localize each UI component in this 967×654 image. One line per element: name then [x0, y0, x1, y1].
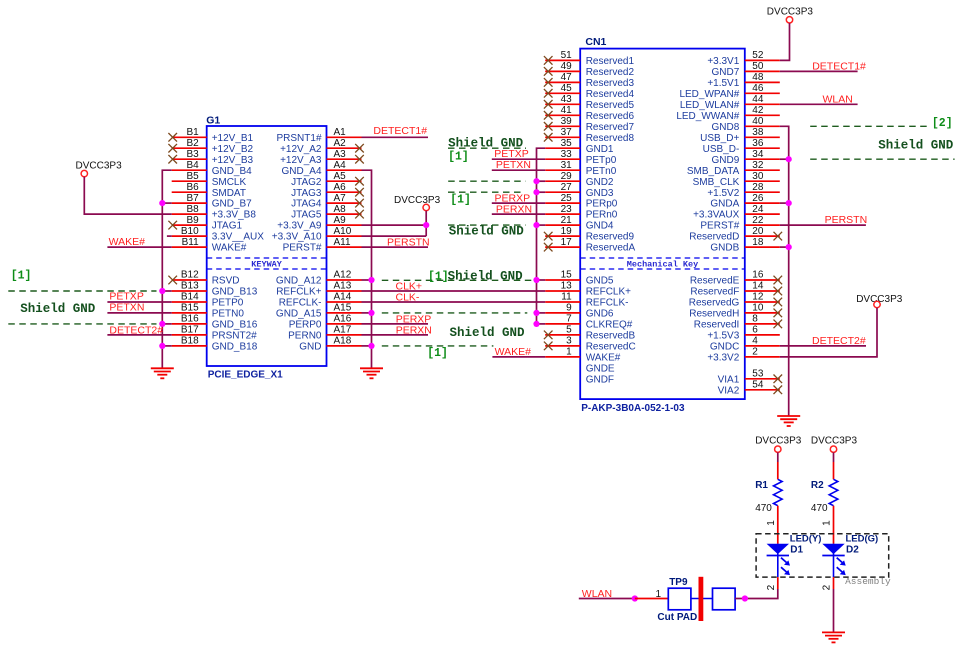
svg-text:LED(Y): LED(Y)	[790, 534, 822, 545]
svg-text:Shield GND: Shield GND	[449, 224, 525, 238]
svg-text:SMDAT: SMDAT	[212, 188, 246, 199]
CN1 pin 29 (GND2)	[545, 171, 614, 188]
svg-text:GND5: GND5	[586, 276, 614, 287]
svg-text:GND8: GND8	[712, 122, 740, 133]
junction CN1 pin 15	[533, 277, 539, 283]
G1 pin B14 (PETP0)	[172, 292, 244, 309]
svg-text:42: 42	[752, 105, 764, 116]
G1 pin A6 (JTAG3)	[291, 182, 364, 199]
net label CLK- and wire G1 A14 to CN1 pin 11	[362, 292, 546, 304]
svg-text:A18: A18	[334, 336, 352, 347]
wire DVCC3P3 to R1	[777, 452, 779, 479]
svg-text:[2]: [2]	[932, 117, 953, 130]
net label WLAN and wire to TP9	[579, 588, 635, 600]
CN1 pin 8 (ReservedI)	[694, 314, 782, 331]
G1 pin B11 (WAKE#)	[172, 237, 247, 254]
svg-text:DVCC3P3: DVCC3P3	[394, 195, 441, 206]
svg-text:A3: A3	[334, 149, 347, 160]
G1 pin B16 (GND_B16)	[172, 314, 258, 331]
CN1 pin 48 (+1.5V1)	[707, 72, 779, 89]
svg-text:CLKREQ#: CLKREQ#	[586, 320, 633, 331]
svg-text:+3.3V2: +3.3V2	[707, 353, 739, 364]
svg-text:Shield GND: Shield GND	[20, 302, 96, 316]
svg-text:+12V_A2: +12V_A2	[280, 144, 322, 155]
svg-text:Shield GND: Shield GND	[448, 269, 524, 283]
svg-text:49: 49	[561, 61, 573, 72]
svg-text:8: 8	[752, 314, 758, 325]
svg-text:GND_B16: GND_B16	[212, 320, 258, 331]
wire GND bus right of G1 (A4-A12-A15-A18)	[362, 170, 372, 368]
svg-text:PERSTN: PERSTN	[825, 214, 868, 226]
svg-text:PERp0: PERp0	[586, 199, 618, 210]
svg-text:B15: B15	[181, 303, 199, 314]
svg-text:+3.3VAUX: +3.3VAUX	[693, 210, 740, 221]
CN1 pin 33 (PETp0)	[545, 149, 617, 166]
svg-text:1: 1	[566, 347, 572, 358]
svg-text:B16: B16	[181, 314, 199, 325]
CN1 pin 13 (REFCLK+)	[545, 281, 631, 298]
svg-text:+3.3V_B8: +3.3V_B8	[212, 210, 257, 221]
svg-text:ReservedH: ReservedH	[689, 309, 739, 320]
svg-text:9: 9	[566, 303, 572, 314]
junction CN1 pin 9	[533, 310, 539, 316]
svg-text:B2: B2	[186, 138, 199, 149]
G1 pin B18 (GND_B18)	[172, 336, 258, 353]
svg-text:SMB_DATA: SMB_DATA	[687, 166, 740, 177]
text Assembly	[845, 576, 891, 587]
svg-text:REFCLK+: REFCLK+	[586, 287, 631, 298]
svg-text:B12: B12	[181, 270, 199, 281]
svg-text:D1: D1	[790, 545, 803, 556]
svg-text:[1]: [1]	[450, 193, 471, 206]
svg-text:A11: A11	[334, 237, 351, 248]
svg-text:+1.5V2: +1.5V2	[707, 188, 739, 199]
shield dashed line at CN1 pin 29 row	[448, 180, 525, 182]
svg-text:Reserved2: Reserved2	[586, 67, 635, 78]
CN1 pin 45 (Reserved4)	[544, 83, 635, 100]
shield dashed line at B16 row	[8, 323, 156, 325]
svg-text:GND2: GND2	[586, 177, 614, 188]
svg-text:REFCLK-: REFCLK-	[279, 298, 322, 309]
testpoint TP9 (Cut PAD)	[657, 577, 735, 623]
net label PERSTN and wire from CN1 pin 22	[780, 214, 867, 226]
svg-text:D2: D2	[846, 545, 859, 556]
svg-text:40: 40	[752, 116, 764, 127]
text Shield GND (middle)	[449, 224, 525, 238]
svg-text:JTAG1: JTAG1	[212, 221, 243, 232]
svg-text:A2: A2	[334, 138, 347, 149]
CN1 pin 20 (ReservedD)	[689, 226, 782, 243]
wire GND bus left of CN1 (pins 35-29-27-21-15-9-7)	[537, 148, 546, 324]
svg-text:GND3: GND3	[586, 188, 614, 199]
CN1 pin 24 (+3.3VAUX)	[693, 204, 780, 221]
svg-text:DVCC3P3: DVCC3P3	[76, 161, 123, 172]
net label DETECT2# and wire from CN1 pin 4	[780, 335, 866, 347]
svg-text:Reserved7: Reserved7	[586, 122, 635, 133]
pin 1 label of TP9	[656, 589, 662, 600]
svg-text:44: 44	[752, 94, 764, 105]
CN1 pin 22 (PERST#)	[700, 215, 779, 232]
svg-text:GNDC: GNDC	[710, 342, 739, 353]
svg-text:29: 29	[561, 171, 573, 182]
G1 pin B15 (PETN0)	[172, 303, 245, 320]
svg-text:16: 16	[752, 270, 764, 281]
G1 pin A5 (JTAG2)	[291, 171, 364, 188]
resistor R2 470	[811, 479, 838, 514]
CN1 pin 25 (PERp0)	[545, 193, 618, 210]
CN1 pin 11 (REFCLK-)	[545, 292, 628, 309]
svg-text:R1: R1	[755, 480, 768, 491]
CN1 pin 5 (ReservedB)	[544, 325, 636, 342]
CN1 pin 28 (+1.5V2)	[707, 182, 779, 199]
svg-text:Reserved5: Reserved5	[586, 100, 635, 111]
svg-text:21: 21	[561, 215, 573, 226]
net label PERXN and wire from G1 A17	[362, 324, 432, 336]
svg-text:Mechanical Key: Mechanical Key	[627, 259, 698, 269]
svg-text:39: 39	[561, 116, 573, 127]
svg-text:19: 19	[561, 226, 573, 237]
svg-text:PETXN: PETXN	[496, 159, 531, 171]
svg-text:+1.5V3: +1.5V3	[707, 331, 739, 342]
shield dashed line at CN1 pin 27 row	[448, 191, 524, 193]
svg-text:46: 46	[752, 83, 764, 94]
CN1 pin 35 (GND1)	[545, 138, 614, 155]
wire DVCC3P3 to R2	[833, 452, 835, 479]
svg-text:ReservedF: ReservedF	[690, 287, 739, 298]
svg-text:7: 7	[566, 314, 572, 325]
G1 pin A10 (+3.3V_A10)	[272, 226, 362, 243]
junction A15	[368, 310, 374, 316]
svg-text:A5: A5	[334, 171, 347, 182]
CN1 pin 26 (GNDA)	[710, 193, 779, 210]
svg-text:G1: G1	[206, 115, 220, 127]
svg-text:ReservedA: ReservedA	[586, 243, 636, 254]
power symbol DVCC3P3 (right, to CN1 pin 2)	[856, 294, 903, 308]
junction A18	[368, 343, 374, 349]
svg-text:[1]: [1]	[11, 270, 32, 283]
svg-text:B4: B4	[186, 160, 199, 171]
svg-text:PERn0: PERn0	[586, 210, 618, 221]
note [2] (right)	[932, 117, 953, 130]
CN1 pin 53 (VIA1)	[718, 369, 782, 386]
ground (CN1 right GND bus)	[777, 416, 800, 426]
CN1 pin 38 (USB_D+)	[700, 127, 780, 144]
G1 pin A18 (GND)	[299, 336, 361, 353]
svg-text:36: 36	[752, 138, 764, 149]
junction A9/DVCC3P3	[423, 222, 429, 228]
junction CN1 pin 29	[533, 178, 539, 184]
CN1 pin 23 (PERn0)	[545, 204, 618, 221]
svg-text:34: 34	[752, 149, 764, 160]
svg-text:Reserved6: Reserved6	[586, 111, 635, 122]
net label PETXP and wire to CN1 pin 33	[492, 148, 545, 160]
G1 pin A4 (GND_A4)	[281, 160, 361, 177]
svg-text:LED_WLAN#: LED_WLAN#	[680, 100, 740, 111]
CN1 pin 30 (SMB_CLK)	[693, 171, 780, 188]
svg-text:33: 33	[561, 149, 573, 160]
G1 pin B13 (GND_B13)	[172, 281, 258, 298]
note [1] (above PETXP)	[448, 150, 469, 163]
net label PETXN and wire to CN1 pin 31	[492, 159, 545, 171]
svg-text:GND_A4: GND_A4	[281, 166, 321, 177]
note [1] (below A18 row)	[427, 347, 448, 360]
CN1 pin 40 (GND8)	[712, 116, 780, 133]
resistor R1 470	[755, 479, 782, 514]
svg-text:B3: B3	[186, 149, 199, 160]
CN1 pin 27 (GND3)	[545, 182, 614, 199]
svg-text:PETN0: PETN0	[212, 309, 245, 320]
svg-text:LED_WPAN#: LED_WPAN#	[679, 89, 739, 100]
svg-text:+12V_B3: +12V_B3	[212, 155, 254, 166]
G1 pin A1 (PRSNT1#)	[276, 127, 361, 144]
LED D1 emission arrows	[781, 558, 790, 575]
CN1 pin 9 (GND6)	[545, 303, 614, 320]
assembly dashed box	[756, 534, 889, 577]
svg-text:+1.5V1: +1.5V1	[707, 78, 739, 89]
LED D2 LED(G)	[822, 534, 878, 556]
svg-text:PERP0: PERP0	[289, 320, 322, 331]
svg-text:GND4: GND4	[586, 221, 614, 232]
note [1]Shield_GND (A12 row)	[428, 269, 523, 283]
svg-text:35: 35	[561, 138, 573, 149]
svg-text:ReservedC: ReservedC	[586, 342, 636, 353]
svg-text:[1]: [1]	[428, 270, 449, 283]
svg-text:B14: B14	[181, 292, 199, 303]
svg-text:JTAG4: JTAG4	[291, 199, 322, 210]
svg-text:24: 24	[752, 204, 764, 215]
svg-text:B6: B6	[186, 182, 199, 193]
svg-text:+3.3V_A9: +3.3V_A9	[277, 221, 322, 232]
svg-text:28: 28	[752, 182, 764, 193]
CN1 pin 1 (WAKE#)	[545, 347, 621, 364]
svg-text:DETECT1#: DETECT1#	[373, 125, 427, 137]
svg-text:Cut PAD: Cut PAD	[657, 612, 697, 623]
svg-text:[1]: [1]	[448, 150, 469, 163]
shield dashed line at CN1 pin 40 row	[810, 125, 930, 127]
CN1 pin 19 (Reserved9)	[544, 226, 635, 243]
CN1 pin 43 (Reserved5)	[544, 94, 635, 111]
G1 pin A3 (+12V_A3)	[280, 149, 364, 166]
wire below LED D2	[833, 556, 835, 633]
svg-text:JTAG3: JTAG3	[291, 188, 322, 199]
svg-text:4: 4	[752, 336, 758, 347]
junction CN1 pin 7	[533, 321, 539, 327]
svg-text:PRSNT2#: PRSNT2#	[212, 331, 257, 342]
net label WAKE# and wire to G1 B11	[107, 236, 171, 248]
svg-text:Reserved9: Reserved9	[586, 232, 635, 243]
svg-text:GND7: GND7	[712, 67, 740, 78]
svg-text:54: 54	[752, 380, 764, 391]
svg-text:48: 48	[752, 72, 764, 83]
svg-text:1: 1	[656, 589, 662, 600]
text Shield GND (right)	[878, 138, 954, 152]
svg-text:25: 25	[561, 193, 573, 204]
wire CN1 pin 2 to DVCC3P3	[780, 308, 877, 357]
svg-text:KEYWAY: KEYWAY	[251, 259, 283, 269]
pin 1 label of D1	[766, 520, 777, 526]
note [1] (above PERXP)	[450, 193, 471, 206]
junction CN1 pin 34	[786, 156, 792, 162]
svg-text:ReservedD: ReservedD	[689, 232, 739, 243]
svg-text:WAKE#: WAKE#	[212, 243, 247, 254]
svg-text:470: 470	[755, 503, 772, 514]
svg-text:Reserved8: Reserved8	[586, 133, 635, 144]
svg-text:6: 6	[752, 325, 758, 336]
svg-text:41: 41	[561, 105, 573, 116]
power symbol DVCC3P3 (top, to CN1 pin 52)	[767, 7, 814, 23]
svg-text:A8: A8	[334, 204, 347, 215]
svg-text:1: 1	[822, 520, 833, 526]
svg-text:GNDA: GNDA	[710, 199, 739, 210]
G1 pin A8 (JTAG5)	[291, 204, 364, 221]
svg-text:A6: A6	[334, 182, 347, 193]
svg-text:RSVD: RSVD	[212, 276, 240, 287]
svg-text:PETn0: PETn0	[586, 166, 617, 177]
svg-text:B13: B13	[181, 281, 199, 292]
junction TP9/D1	[742, 595, 748, 601]
svg-text:2: 2	[822, 584, 833, 590]
net label WAKE# and wire to CN1 pin 1	[492, 346, 545, 358]
svg-text:2: 2	[766, 584, 777, 590]
svg-text:27: 27	[561, 182, 573, 193]
G1 pin A9 (+3.3V_A9)	[277, 215, 361, 232]
svg-text:5: 5	[566, 325, 572, 336]
svg-text:GNDB: GNDB	[710, 243, 739, 254]
wire DVCC3P3 to G1 pin B8	[84, 177, 171, 214]
junction CN1 pin 26	[786, 200, 792, 206]
G1 pin A16 (PERP0)	[289, 314, 362, 331]
junction B18	[159, 343, 165, 349]
svg-text:A13: A13	[334, 281, 352, 292]
svg-text:A16: A16	[334, 314, 352, 325]
svg-text:REFCLK+: REFCLK+	[276, 287, 321, 298]
G1 pin B6 (SMDAT)	[172, 182, 246, 199]
CN1 pin 15 (GND5)	[545, 270, 614, 287]
CN1 pin - (GNDF)	[586, 374, 614, 385]
CN1 pin 54 (VIA2)	[718, 380, 782, 397]
svg-text:Reserved4: Reserved4	[586, 89, 635, 100]
G1 pin B9 (JTAG1)	[168, 215, 242, 232]
G1 pin A13 (REFCLK+)	[276, 281, 361, 298]
G1 pin B17 (PRSNT2#)	[172, 325, 257, 342]
svg-text:A12: A12	[334, 270, 352, 281]
svg-text:GND_B18: GND_B18	[212, 342, 258, 353]
svg-text:WAKE#: WAKE#	[586, 353, 621, 364]
svg-text:30: 30	[752, 171, 764, 182]
power symbol DVCC3P3 (above R2)	[811, 435, 858, 452]
svg-text:B1: B1	[186, 127, 199, 138]
junction CN1 pin 18	[786, 244, 792, 250]
G1 pin A15 (GND_A15)	[276, 303, 362, 320]
net label DETECT1# and wire from CN1 pin 50	[780, 61, 866, 73]
CN1 pin 31 (PETn0)	[545, 160, 617, 177]
svg-text:PETXN: PETXN	[109, 301, 144, 313]
svg-text:GND: GND	[299, 342, 321, 353]
connector G1 body (PCIE_EDGE_X1)	[206, 115, 326, 381]
shield dashed line at CN1 pin 34 row	[810, 158, 954, 160]
ground (G1 B-side GND bus)	[151, 368, 174, 378]
svg-text:52: 52	[752, 50, 764, 61]
G1 pin A7 (JTAG4)	[291, 193, 364, 210]
svg-text:ReservedE: ReservedE	[690, 276, 740, 287]
svg-text:DVCC3P3: DVCC3P3	[755, 435, 802, 446]
junction CN1 pin 27	[533, 189, 539, 195]
CN1 pin 46 (LED_WPAN#)	[679, 83, 779, 100]
svg-text:A14: A14	[334, 292, 352, 303]
wire below LED D1	[745, 556, 778, 599]
svg-text:+12V_B2: +12V_B2	[212, 144, 254, 155]
CN1 pin 39 (Reserved7)	[544, 116, 635, 133]
svg-text:17: 17	[561, 237, 573, 248]
svg-text:SMB_CLK: SMB_CLK	[693, 177, 740, 188]
net label PERXP and wire to CN1 pin 25	[492, 193, 545, 205]
svg-text:A4: A4	[334, 160, 347, 171]
LED D1 LED(Y)	[767, 534, 822, 556]
G1 pin B12 (RSVD)	[168, 270, 239, 287]
svg-text:PERST#: PERST#	[700, 221, 739, 232]
svg-text:31: 31	[561, 160, 573, 171]
svg-text:USB_D-: USB_D-	[703, 144, 740, 155]
svg-text:ReservedI: ReservedI	[694, 320, 740, 331]
svg-text:12: 12	[752, 292, 764, 303]
text Shield GND (above PETXP row)	[448, 136, 524, 150]
svg-text:PERN0: PERN0	[288, 331, 322, 342]
net label PERSTN and wire from G1 A11	[362, 236, 430, 248]
svg-text:B10: B10	[181, 226, 199, 237]
svg-text:PERST#: PERST#	[283, 243, 322, 254]
CN1 pin 10 (ReservedH)	[689, 303, 782, 320]
net label CLK+ and wire G1 A13 to CN1 pin 13	[362, 281, 546, 293]
CN1 pin 36 (USB_D-)	[703, 138, 780, 155]
CN1 pin 44 (LED_WLAN#)	[680, 94, 780, 111]
svg-text:Assembly: Assembly	[845, 576, 891, 587]
G1 pin B1 (+12V_B1)	[168, 127, 253, 144]
svg-text:A10: A10	[334, 226, 352, 237]
svg-text:Reserved1: Reserved1	[586, 56, 635, 67]
svg-text:B5: B5	[186, 171, 199, 182]
G1 pin B3 (+12V_B3)	[168, 149, 253, 166]
svg-text:+3.3V1: +3.3V1	[707, 56, 739, 67]
svg-text:1: 1	[766, 520, 777, 526]
CN1 pin 32 (SMB_DATA)	[687, 160, 780, 177]
text Shield GND (lower middle)	[450, 326, 526, 340]
svg-text:A9: A9	[334, 215, 347, 226]
pin 1 label of D2	[822, 520, 833, 526]
junction B16	[159, 321, 165, 327]
G1 pin A17 (PERN0)	[288, 325, 361, 342]
svg-text:B9: B9	[186, 215, 199, 226]
svg-text:GND_A12: GND_A12	[276, 276, 322, 287]
svg-text:GND_A15: GND_A15	[276, 309, 322, 320]
svg-text:Shield GND: Shield GND	[450, 326, 526, 340]
svg-text:A15: A15	[334, 303, 352, 314]
svg-text:WAKE#: WAKE#	[109, 236, 146, 248]
svg-text:14: 14	[752, 281, 764, 292]
svg-text:51: 51	[561, 50, 573, 61]
G1 pin B2 (+12V_B2)	[168, 138, 253, 155]
shield dashed line A12 row to CN1 pin 15	[382, 279, 534, 281]
junction A12	[368, 277, 374, 283]
svg-text:ReservedG: ReservedG	[689, 298, 740, 309]
svg-text:P-AKP-3B0A-052-1-03: P-AKP-3B0A-052-1-03	[581, 403, 685, 414]
svg-text:GNDE: GNDE	[586, 363, 615, 374]
net label WLAN and wire from CN1 pin 44	[780, 94, 858, 106]
svg-text:+12V_A3: +12V_A3	[280, 155, 322, 166]
svg-text:47: 47	[561, 72, 573, 83]
wire R2 to LED D2	[833, 506, 835, 544]
G1 pin B5 (SMCLK)	[172, 171, 247, 188]
connector CN1 body (P-AKP-3B0A-052-1-03)	[580, 36, 745, 414]
